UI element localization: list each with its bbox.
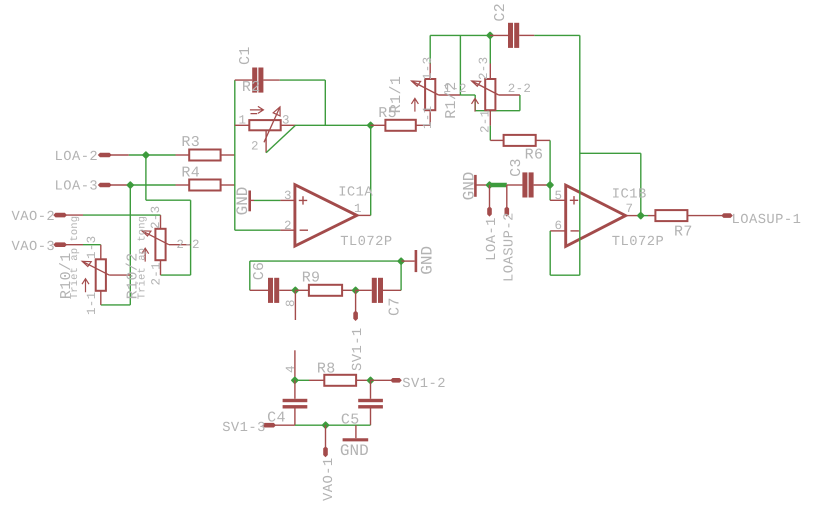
wire pin6 down [549,231,551,275]
resistor R3 right pin [221,154,235,156]
pin 4 of IC1 power [294,350,296,380]
wire output to R7 [641,215,648,217]
svg-text:8: 8 [284,299,298,307]
svg-text:2-3: 2-3 [149,206,163,229]
wire VAO-2 to R10/2 top [83,214,161,216]
capacitor C5 plates [358,399,383,402]
potentiometer R1/1 wiper wire [439,94,461,96]
svg-text:2-1: 2-1 [479,110,493,133]
resistor R6 right pin [536,139,550,141]
wire LOA-2 to R3 [129,154,176,156]
wire LOA-2 branch right [146,199,191,201]
junction dot SV1-1 node [351,286,359,294]
svg-text:6: 6 [555,219,563,233]
svg-text:1-3: 1-3 [85,236,99,259]
capacitor C4 plates [283,399,308,402]
resistor R8 right pin [356,379,370,381]
svg-text:Triet ap tong: Triet ap tong [69,216,81,299]
wire C6 left down [249,261,251,290]
pin SV1-3 [262,423,276,428]
op-amp IC1A pin2 stub [280,229,295,231]
svg-text:R1/1: R1/1 [388,76,405,113]
junction dot top rail GND node [397,257,405,265]
potentiometer R2 left pin [235,124,250,126]
pin LOA-2 [98,153,112,158]
svg-text:R7: R7 [674,223,693,240]
resistor R5 left pin [371,124,386,126]
wire to GND top right [401,260,414,262]
svg-text:2-2: 2-2 [508,82,531,96]
ground symbol bottom bar [343,438,369,441]
op-amp IC1B minus mark [571,230,579,232]
wire C1 right [263,79,279,81]
svg-text:2-2: 2-2 [176,238,199,252]
svg-text:R8: R8 [317,361,336,378]
svg-text:GND: GND [460,172,478,201]
resistor R5 body [385,120,415,131]
pin 8 of IC1 power [294,290,296,320]
svg-text:GND: GND [340,442,369,460]
potentiometer R1/1 top pin [429,64,431,80]
svg-text:R3: R3 [181,134,200,151]
capacitor C7 left pin [356,289,372,291]
resistor R9 body [309,285,342,296]
op-amp IC1B pin6 stub [550,230,566,232]
potentiometer R10/1 top pin [100,245,102,260]
potentiometer R10/2 bottom pin [160,260,162,275]
wire C1 to feedback corner [280,79,326,81]
potentiometer R10/1 bottom pin [100,291,102,305]
wire wiper link up [519,95,521,111]
junction dot SV1-2 node [366,376,374,384]
potentiometer R1/1 bottom pin [429,110,431,125]
svg-text:LOASUP-2: LOASUP-2 [503,212,518,282]
pin LOASUP-2 [506,185,508,208]
resistor R5 right pin [416,124,430,126]
capacitor C1 plates [252,68,257,93]
pin LOA-1 [489,185,491,208]
op-amp IC1B [566,185,626,246]
svg-text:2: 2 [284,219,292,233]
junction dot C3 right node [546,181,554,189]
ground symbol bottom stub [355,425,357,438]
resistor R7 body [655,210,687,221]
svg-text:R9: R9 [302,270,321,287]
capacitor C6 left pin [250,289,268,291]
svg-text:LOASUP-1: LOASUP-1 [732,213,802,228]
pin SV1-2 [390,378,402,383]
svg-text:C4: C4 [267,410,286,427]
resistor R4 right pin [221,184,235,186]
wire LOA-3 to R4 [129,184,176,186]
svg-text:3: 3 [282,114,290,128]
svg-text:SV1-3: SV1-3 [222,421,266,436]
resistor R7 right pin [687,215,723,217]
junction dot C2 left node [486,31,494,39]
wire LOA-2 branch down [145,155,147,200]
op-amp IC1A pin1 output stub [357,214,371,216]
svg-text:TL072P: TL072P [612,235,664,250]
svg-text:LOA-3: LOA-3 [55,179,99,194]
svg-text:C5: C5 [341,412,360,429]
wire pin6 bottom link [550,274,580,276]
wire C7 right up [400,261,402,290]
svg-text:IC1B: IC1B [612,187,647,202]
svg-text:4: 4 [284,365,298,373]
wire LOA-1 node to LOASUP-2 node [490,183,507,188]
capacitor C2 plates [508,23,513,48]
wire bottom rail [295,424,371,426]
pin LOASUP-1 [721,213,733,218]
junction dot LOA-3 node [126,181,134,189]
wire rail to IC1A pin2 [235,229,281,231]
pin SV1-1 [355,290,357,312]
svg-text:1-3: 1-3 [421,57,435,80]
capacitor C2 right pin [519,34,534,36]
wire inverting rail of IC1A [234,80,236,230]
resistor R7 left pin [648,215,655,217]
svg-text:R4: R4 [181,164,200,181]
pin VAO-3 [53,242,67,247]
op-amp IC1A [295,185,357,246]
svg-text:C3: C3 [508,158,525,177]
wire wiper link right [460,94,475,96]
resistor R3 left pin [176,154,190,156]
wire R2 pin3 to output node [296,124,371,126]
capacitor C6 plates [268,278,273,303]
wire feedback to output column [580,152,641,154]
wire C2 right [534,34,580,36]
op-amp IC1B plus mark [570,196,578,204]
wire down to R10/2 wiper node [190,200,192,275]
resistor R8 body [324,375,356,386]
resistor R4 body [189,180,220,191]
svg-text:C2: C2 [492,3,509,22]
capacitor C3 left pin [507,184,523,186]
resistor R8 left pin [309,379,324,381]
wire pin2 diagonal to output node [266,125,295,152]
svg-text:C7: C7 [386,297,403,316]
svg-text:1-1: 1-1 [85,292,99,315]
svg-text:SV1-2: SV1-2 [402,377,446,392]
potentiometer R10/1 body [96,259,106,291]
op-amp IC1B pin7 stub [626,215,641,217]
svg-text:2: 2 [251,140,259,154]
svg-text:1: 1 [239,114,247,128]
potentiometer R2 adjust arrow [250,106,264,113]
wire C2 node down to R1/2 [489,35,491,63]
wire pin4 node to R8 [295,379,309,381]
capacitor C4 bottom pin [294,409,296,426]
wire wiper link down [474,95,476,111]
svg-text:GND: GND [234,187,252,216]
wire output column down [640,153,642,215]
resistor R6 body [504,135,536,146]
svg-text:C6: C6 [251,262,268,281]
potentiometer R2 wiper diagonal [264,107,280,142]
capacitor C5 bottom pin [370,409,372,426]
wire VAO-3 to R10/1 top [83,244,101,246]
wire C6C7 top rail [250,260,401,262]
junction dot pin4 node [291,376,299,384]
capacitor C7 plates [372,278,377,303]
svg-text:5: 5 [555,189,563,203]
svg-text:2-3: 2-3 [477,57,491,80]
potentiometer R1/2 body [485,79,495,110]
potentiometer R2 body [249,120,280,130]
wire R1/1 wiper to rail [459,35,461,95]
potentiometer R2 right pin [281,124,296,126]
potentiometer R1/1 body [425,79,435,110]
wire C3 node to pin5 [549,185,551,200]
resistor R3 body [189,150,220,161]
junction dot pin8 node [291,286,299,294]
svg-text:Triet ap tong: Triet ap tong [137,216,149,299]
svg-text:LOA-1: LOA-1 [485,217,500,261]
capacitor C3 right pin [534,184,551,186]
svg-text:R6: R6 [525,147,544,164]
resistor R9 left pin [295,289,309,291]
op-amp IC1A plus mark [299,196,307,204]
wire R1/2 bottom down [489,126,491,141]
svg-text:IC1A: IC1A [338,186,373,201]
resistor R9 right pin [342,289,356,291]
svg-text:R2: R2 [242,79,261,96]
svg-text:VAO-3: VAO-3 [12,240,56,255]
capacitor C2 left pin [490,34,508,36]
ground symbol near C3 [474,175,477,197]
svg-text:7: 7 [626,202,634,216]
capacitor C4 top pin [294,380,296,399]
wire top rail [430,34,490,36]
svg-text:R1/2: R1/2 [443,81,460,118]
junction dot LOA-2 node [142,151,150,159]
potentiometer R1/2 bottom pin [489,110,491,125]
wire GND to LOA-1 node [478,184,490,186]
svg-text:LOA-2: LOA-2 [55,150,99,165]
wire to SV1-2 [371,379,393,381]
ground symbol right of C7 block [415,250,418,272]
svg-text:C1: C1 [237,46,254,65]
svg-text:1-1: 1-1 [421,106,435,129]
wire C1 left [235,79,252,81]
wire feedback vertical through IC1B [579,35,581,275]
pin LOA-3 [98,183,112,188]
wire R6 to C3 node [549,140,551,185]
resistor R4 left pin [176,184,190,186]
capacitor C6 right pin [279,289,295,291]
svg-text:3: 3 [284,189,292,203]
pin VAO-1 [325,425,327,447]
ground symbol at IC1A pin3 [248,191,251,212]
wire R10/2 bottom link [161,274,191,276]
capacitor C7 right pin [383,289,401,291]
wire GND to IC1A pin3 [254,199,280,201]
potentiometer R2 pin2 stub [265,130,267,152]
junction dot LOA-1 node [485,181,493,189]
svg-text:1: 1 [354,202,362,216]
svg-text:VAO-1: VAO-1 [322,457,337,501]
potentiometer R1/2 top pin [489,64,491,80]
svg-text:SV1-1: SV1-1 [351,327,366,371]
junction dot VAO-1 node [321,421,329,429]
op-amp IC1A minus mark [300,229,308,231]
resistor R6 left pin [490,139,503,141]
junction dot IC1A output node [366,121,374,129]
potentiometer R10/2 body [155,229,165,260]
op-amp IC1B pin5 stub [550,199,566,201]
wire IC1A output up to node [370,125,372,215]
potentiometer R10/2 wiper wire [169,244,191,246]
potentiometer R10/2 top pin [160,215,162,229]
capacitor C5 top pin [370,380,372,399]
wire wiper link under R1/2 [475,110,520,112]
wire LOA-3 branch down [129,185,131,305]
capacitor C3 plates [522,172,527,197]
wire feedback down [324,80,326,125]
svg-text:GND: GND [418,246,436,275]
wire R10/1 bottom link [101,304,131,306]
op-amp IC1A pin3 stub [280,199,295,201]
svg-text:VAO-2: VAO-2 [12,210,56,225]
svg-text:2-1: 2-1 [150,262,164,285]
pin VAO-2 [53,213,67,218]
potentiometer R1/2 wiper wire [499,94,520,96]
potentiometer R10/1 wiper wire [109,274,130,276]
svg-text:TL072P: TL072P [340,235,392,250]
junction dot IC1B output [637,211,645,219]
wire top rail to R1/1 [429,35,431,63]
